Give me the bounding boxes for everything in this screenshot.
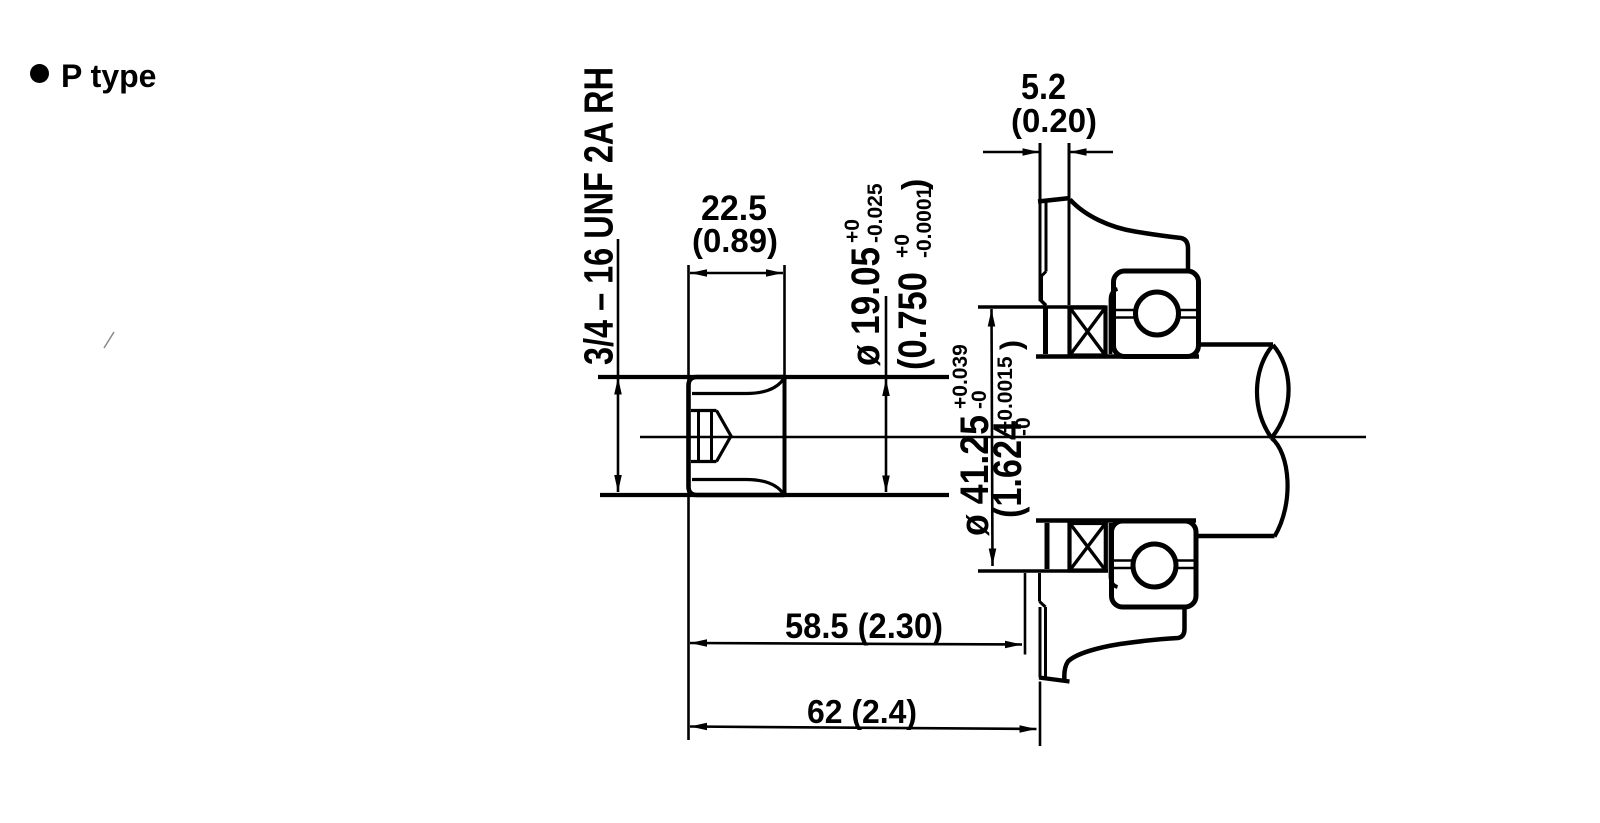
arrow dia41.25 down — [989, 549, 997, 566]
bearing top ball — [1136, 292, 1179, 335]
bearing bottom race line left upper — [1113, 559, 1134, 562]
bearing top outer box — [1114, 271, 1199, 357]
oil seal bottom X diagonal 2 — [1070, 524, 1105, 571]
arrow dia19.05 up — [882, 379, 890, 396]
arrow thread dim down — [614, 475, 622, 492]
flange left face upper (with 5.2 extension) — [1039, 143, 1042, 301]
thread end line — [783, 377, 787, 495]
flange top profile curve — [1070, 200, 1188, 272]
oil seal bottom box — [1070, 523, 1106, 571]
oil seal bottom X diagonal 1 — [1070, 524, 1105, 571]
flange bottom left face upper part — [1038, 573, 1041, 602]
arrow 5.2 left (points right) — [1023, 148, 1040, 156]
center drill hole bottom line — [691, 460, 717, 463]
dia 19.05 label (rotated) — [841, 183, 888, 366]
svg-text:+0: +0 — [841, 219, 864, 243]
svg-text:(0.20): (0.20) — [1011, 102, 1097, 139]
bullet marker — [30, 64, 49, 83]
svg-text:ø 19.05: ø 19.05 — [844, 247, 888, 366]
large shaft top line right of bearing — [1199, 342, 1274, 346]
bearing top race line right lower — [1179, 316, 1197, 319]
58.5 extension line — [1024, 573, 1027, 655]
bearing bottom race line right upper — [1177, 559, 1195, 562]
arrow dia19.05 down — [882, 476, 890, 493]
left extension line (shaft end) — [687, 265, 690, 740]
shaft bottom line — [600, 493, 949, 497]
flange left face inner line — [1045, 199, 1048, 272]
thread OD dimension line (3/4-16 UNF) — [617, 239, 620, 492]
center line — [640, 436, 1366, 439]
arrow 22.5 left — [690, 269, 707, 277]
svg-text:): ) — [995, 340, 1028, 350]
bearing bottom ball — [1133, 544, 1176, 587]
svg-text:(0.750: (0.750 — [891, 272, 935, 370]
svg-text:P type: P type — [61, 58, 156, 94]
bearing bottom race line right lower — [1177, 567, 1195, 570]
svg-text:5.2: 5.2 — [1021, 66, 1066, 107]
flange left face mid segment — [1039, 276, 1043, 301]
seal bottom thick top line (bottom half) — [1036, 518, 1196, 523]
dim 5.2 right line — [1070, 151, 1114, 154]
shaft top line — [598, 375, 949, 379]
arrow 58.5 right — [1005, 641, 1022, 649]
dimension line 62 — [690, 727, 1037, 730]
seal lip strip bottom — [1111, 523, 1118, 587]
arrow 58.5 left — [690, 639, 707, 647]
flange face jog lower — [1040, 300, 1046, 306]
center drill hole top line — [691, 409, 717, 412]
dimension line 58.5 — [690, 643, 1022, 645]
thread label 3/4-16 UNF 2A RH (rotated) — [576, 67, 622, 365]
arrow 62 right — [1020, 725, 1037, 733]
center drill hole vertical line 1 — [697, 411, 700, 462]
62 extension line — [1039, 682, 1042, 747]
dia 41.25 dimension line — [992, 309, 993, 566]
flange top face — [1038, 198, 1071, 202]
dimension line 22.5 — [690, 272, 783, 275]
stray scan mark — [104, 332, 114, 348]
svg-text:(0.89): (0.89) — [692, 222, 778, 259]
flange face strip beside seal (top) — [1043, 307, 1048, 354]
svg-text:62 (2.4): 62 (2.4) — [807, 693, 917, 730]
oil seal top X diagonal 1 — [1070, 308, 1105, 355]
arrow dia41.25 up — [988, 310, 996, 327]
center drill cone — [717, 411, 732, 462]
arrow thread dim up — [614, 378, 622, 395]
flange face strip beside seal (bottom) — [1045, 523, 1050, 569]
shaft break lens left arc — [1257, 345, 1273, 438]
center drill hole vertical line 2 — [710, 411, 713, 462]
oil seal top X diagonal 2 — [1070, 308, 1105, 355]
svg-text:58.5 (2.30): 58.5 (2.30) — [785, 607, 943, 646]
bearing top race line right upper — [1179, 309, 1197, 312]
svg-text:3/4 – 16 UNF 2A RH: 3/4 – 16 UNF 2A RH — [576, 67, 622, 365]
dim 5.2 left line — [983, 151, 1039, 154]
dia 41.25 label (rotated) — [949, 344, 997, 536]
svg-text:+0: +0 — [891, 234, 914, 258]
arrow 62 left — [690, 723, 707, 731]
dia 41.25 top extension line / seal top edge — [978, 305, 1106, 309]
svg-text:-0.025: -0.025 — [864, 183, 887, 243]
svg-text:-0.0001: -0.0001 — [913, 186, 936, 258]
flange bottom face pair line b — [1044, 607, 1047, 678]
dia 41.25 bottom extension line / seal bottom edge — [978, 569, 1108, 573]
shaft break lens right arc — [1272, 345, 1289, 438]
oil seal top box — [1070, 308, 1106, 356]
thread minor diameter top line with runout — [692, 379, 784, 394]
seal lip strip top — [1111, 289, 1118, 354]
flange bottom face pair line a — [1039, 607, 1042, 678]
dia 1.624 label (rotated) — [986, 340, 1035, 518]
flange bottom profile curve — [1064, 608, 1184, 681]
flange foot line — [1039, 678, 1070, 682]
svg-text:): ) — [896, 179, 934, 190]
flange face jog upper — [1041, 272, 1047, 278]
arrow 22.5 right — [766, 269, 783, 277]
large shaft bottom line right of bearing — [1196, 534, 1275, 538]
thread minor diameter bottom line with runout — [692, 480, 784, 495]
seal bottom thick line (top half) — [1036, 354, 1199, 359]
bearing top race line left upper — [1115, 309, 1136, 312]
flange right face (with 5.2 extension) — [1068, 143, 1071, 305]
svg-text:-0: -0 — [968, 390, 991, 409]
arrow 5.2 right (points left) — [1070, 148, 1087, 156]
dia 19.05 dimension line — [885, 296, 888, 492]
bearing bottom outer box — [1112, 521, 1197, 607]
right extension line for 22.5 dim (thread end) — [783, 265, 786, 377]
svg-text:-0: -0 — [1012, 417, 1035, 436]
bearing bottom race line left lower — [1113, 567, 1134, 570]
shaft end face with rounded corners — [689, 377, 785, 495]
dia 0.750 label (rotated) — [891, 179, 936, 370]
bearing top race line left lower — [1115, 316, 1136, 319]
shaft break lower arc — [1272, 438, 1288, 537]
flange bottom face jog — [1040, 602, 1046, 608]
